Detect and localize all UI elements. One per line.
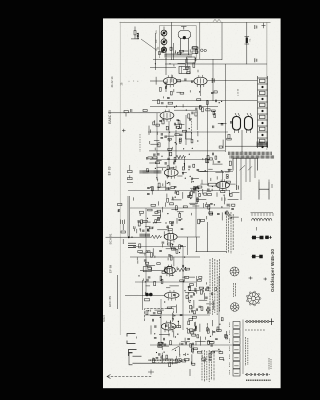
- wire vert x207: [207, 100, 209, 186]
- wire grid bus: [150, 80, 194, 82]
- svg-text:4b 22 14: 4b 22 14: [110, 76, 114, 87]
- wire tuner bus 2: [165, 63, 267, 65]
- fuse dumbbell 1: [252, 236, 264, 239]
- antenna coupling part: [193, 47, 204, 52]
- svg-text:EF 89: EF 89: [108, 166, 112, 175]
- mixer lower cluster: [137, 242, 189, 286]
- wire V3 plate: [174, 110, 197, 130]
- bottom tiny text row: [246, 379, 271, 381]
- oscillator triode cap: [178, 27, 191, 56]
- tick mark right of arrow: [189, 369, 191, 376]
- oscillator dense cluster: [134, 197, 188, 239]
- long wire lower: [130, 256, 200, 258]
- resistor box left of V5: [209, 183, 217, 186]
- front-end cluster: [145, 286, 196, 341]
- tube socket diagram C: [230, 303, 239, 312]
- wire vert x161: [160, 299, 162, 345]
- bottom mid-left sparse cluster: [188, 277, 210, 315]
- wire tuner bus 3: [150, 67, 176, 69]
- tube V4 IF amp: [164, 167, 178, 179]
- between stage cluster: [197, 153, 232, 183]
- scanned schematic page: [103, 18, 281, 388]
- tiny label right border top: [255, 25, 257, 29]
- small parts right column y278: [249, 276, 268, 280]
- wire right column: [240, 158, 242, 200]
- coil blob on drop: [245, 37, 250, 45]
- schematic left border line: [119, 22, 121, 335]
- wire vert x199: [199, 22, 201, 59]
- wire tuner left drop: [155, 33, 157, 70]
- wire EABC bus: [108, 112, 161, 114]
- wire mixer bus 2: [133, 246, 186, 248]
- V6 extra grid lines: [168, 234, 173, 240]
- parts on EABC bus: [122, 109, 147, 132]
- trimmer capacitor column: [161, 27, 167, 53]
- wire V5 top: [221, 171, 223, 182]
- schematic top border line: [120, 21, 271, 23]
- schematic right border line: [266, 22, 268, 150]
- junction blob twin wire: [128, 236, 133, 238]
- tube V1 detector: [163, 75, 177, 87]
- svg-text:EABC 80: EABC 80: [108, 110, 112, 124]
- upper right mid cluster: [186, 90, 232, 149]
- shield dashed vertical: [139, 134, 141, 152]
- wire right v x196: [196, 276, 198, 287]
- wire horiz y345: [150, 344, 240, 346]
- IF can between tubes: [179, 67, 190, 74]
- tuner lower cluster: [155, 63, 201, 109]
- wire horiz y295: [125, 295, 165, 297]
- margin tiny label y220: [121, 220, 125, 225]
- wire vert x146: [145, 208, 147, 295]
- IF can box: [187, 57, 196, 63]
- tube V5 EL84 output: [216, 179, 229, 191]
- antenna feed bracket: [129, 353, 177, 365]
- feed label text row: [149, 360, 177, 363]
- tuner component cluster: [158, 47, 197, 63]
- earth antenna symbol: [129, 350, 137, 357]
- tiny label right of V2: [212, 78, 214, 83]
- svg-text:80223: 80223: [103, 315, 106, 322]
- caps stack below bus: [128, 243, 136, 247]
- fuse dumbbell 1b: [265, 236, 272, 239]
- zigzag resistor after V7: [177, 268, 187, 271]
- tuner label column: [156, 29, 158, 51]
- resistor pair top right: [192, 47, 198, 53]
- wire above V5: [200, 171, 233, 173]
- junction dots tuner: [165, 53, 187, 64]
- socket B pin circles: [246, 291, 261, 306]
- long vertical wire x171: [171, 22, 173, 60]
- wire horiz y282: [135, 281, 196, 283]
- wire under cans: [225, 130, 268, 152]
- dial cord row top: [245, 319, 274, 326]
- diagonal wire from C13 cluster: [141, 39, 156, 50]
- second small circle: [204, 49, 206, 51]
- dial cord row 2: [245, 329, 266, 331]
- scan grain overlay: [103, 18, 281, 388]
- tube socket diagram A: [230, 267, 239, 276]
- electrolytic can 1: [233, 113, 241, 133]
- V7 extra grid lines: [167, 268, 172, 274]
- wire V6 plate right: [177, 237, 200, 255]
- fine print block bottom mid: [210, 258, 220, 315]
- wire AM antenna drop: [246, 22, 248, 64]
- wire V5 right: [229, 183, 235, 185]
- wire det bus 2: [150, 159, 210, 161]
- hatch comb row 1: [229, 152, 272, 155]
- dot row: [129, 81, 139, 82]
- wire horiz y315: [145, 314, 210, 316]
- arrow to tuner: [107, 375, 152, 379]
- tube V9 ECC85 b: [161, 321, 175, 333]
- svg-text:ECH 81: ECH 81: [109, 233, 113, 244]
- fuse dumbbell 2: [252, 255, 263, 258]
- svg-text:C 13.2: C 13.2: [138, 32, 140, 39]
- wire into V7: [140, 269, 164, 271]
- front-end right sparse cluster: [197, 288, 217, 314]
- wire vert x222: [221, 22, 223, 60]
- svg-text:EF 89: EF 89: [109, 265, 113, 274]
- legend right fine print: [269, 358, 271, 370]
- AF stage dense cluster: [187, 186, 239, 224]
- tube V6 ECH81 mixer: [164, 231, 177, 243]
- svg-text:Goldsuper W45-30: Goldsuper W45-30: [270, 249, 276, 292]
- fine print block (notes col mid): [226, 212, 233, 254]
- bottom mid cluster: [187, 318, 227, 365]
- svg-text:M/F: M/F: [156, 38, 158, 42]
- wire trimmer column to coil: [165, 51, 167, 92]
- wire front-end drop: [117, 275, 119, 309]
- wire drop into V7 top: [173, 257, 175, 266]
- wire into V5: [200, 180, 208, 184]
- EF89 margin parts: [127, 165, 133, 183]
- detector component cluster: [149, 119, 187, 150]
- tuner enclosure box: [160, 26, 197, 59]
- output transformer windings: [241, 213, 273, 231]
- svg-text:ECC 85: ECC 85: [108, 296, 112, 307]
- pointer diagonal: [172, 346, 179, 350]
- wire vert x225: [224, 64, 226, 152]
- tube V8 ECC85 a: [165, 290, 179, 301]
- label right of V5: [237, 185, 239, 190]
- zigzag on det bus: [176, 155, 186, 158]
- coil row (IF transformer windings): [165, 54, 193, 58]
- tube V3 EABC80: [160, 110, 174, 122]
- wire horiz y132: [148, 131, 228, 133]
- wire vert x213: [212, 59, 214, 101]
- dipole antenna symbol: [127, 334, 137, 344]
- tiny label right border mid: [255, 58, 257, 62]
- AGC box: [186, 132, 192, 139]
- ECH margin parts: [121, 224, 125, 244]
- dark blobs left of V8: [145, 293, 153, 301]
- wire mixer bus: [106, 236, 152, 238]
- tube socket diagram B: [248, 293, 260, 305]
- electrolytic can 2: [245, 113, 253, 133]
- wire vert x219: [218, 276, 220, 330]
- twin wire: [128, 196, 130, 237]
- band switch cluster: [153, 341, 206, 367]
- tube V7 FM IF: [164, 265, 175, 277]
- coil comb before V4: [140, 170, 161, 173]
- svg-text:a 12 db: a 12 db: [238, 88, 240, 96]
- wire bus y106: [150, 106, 218, 108]
- circled symbol at feed row: [178, 358, 182, 362]
- hatch comb row 2: [230, 155, 274, 158]
- bottom dashed connector row: [245, 374, 270, 376]
- wire horiz y100: [152, 100, 257, 102]
- IF stage dense cluster: [147, 152, 199, 199]
- resistor box on V7 wire: [143, 267, 151, 272]
- coil hatch at margin y235: [140, 234, 149, 237]
- arrow label tick: [148, 370, 154, 375]
- wire horiz y208: [130, 207, 230, 209]
- wire left margin v: [142, 280, 144, 310]
- AGC dashed vertical: [191, 118, 193, 134]
- push-button legend boxes: [233, 320, 243, 377]
- wire horiz y190: [128, 190, 230, 192]
- wire vert x196: [195, 186, 197, 237]
- fine print col near socket: [234, 283, 236, 297]
- wire L corner right mid: [196, 222, 227, 252]
- power transformer box: [233, 158, 258, 170]
- component at margin y205: [118, 204, 122, 212]
- ladder bottom hatch block: [257, 142, 267, 148]
- speaker H-frame: [259, 180, 272, 200]
- FM tuner enclosure box: [145, 309, 174, 322]
- terminal mark top right corner: [262, 23, 266, 28]
- vertical IF core lines: [185, 60, 187, 67]
- zigzag break in top border: [213, 19, 221, 22]
- wire vert x183: [182, 246, 184, 330]
- wire V2 to ladder: [201, 81, 258, 97]
- tube V2 output stage: [194, 75, 207, 87]
- wire tuner bus 1: [153, 58, 222, 60]
- fine print block bottom left col: [202, 350, 214, 382]
- legend center fine print: [246, 337, 248, 366]
- long wire mid page: [149, 150, 225, 152]
- V5 extra grid lines: [218, 182, 226, 188]
- wire vert chain mid: [169, 115, 186, 168]
- wire vert x157: [156, 113, 158, 180]
- small parts near C13: [131, 27, 140, 39]
- legend left tiny labels: [229, 323, 231, 376]
- transformer drop wires: [237, 171, 256, 187]
- terminal strip / switch ladder right edge: [258, 76, 268, 148]
- zigzag resistor before V6: [152, 235, 162, 238]
